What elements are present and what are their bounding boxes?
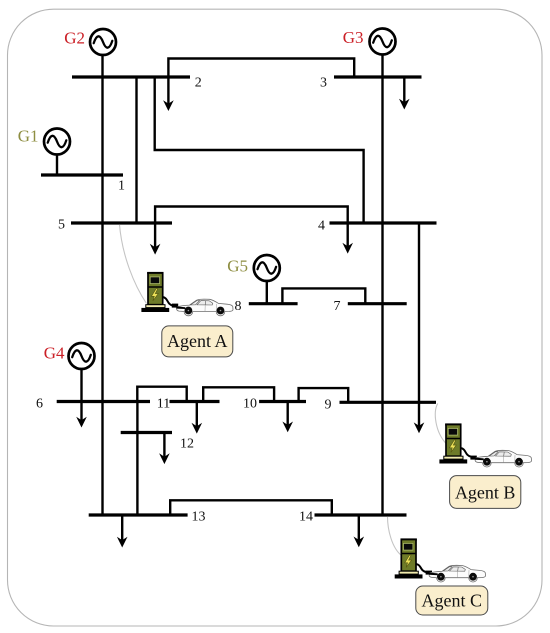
car agent A xyxy=(176,299,233,316)
charging cable agent C xyxy=(416,564,432,575)
bus 10 xyxy=(259,400,306,403)
generator G4 xyxy=(69,343,95,369)
svg-text:2: 2 xyxy=(195,75,202,90)
EV charger agent B xyxy=(439,423,467,463)
wire trunk G2-2-1-5-6-13 xyxy=(101,55,103,515)
svg-text:4: 4 xyxy=(318,219,325,234)
svg-text:12: 12 xyxy=(180,437,194,452)
generator G1 xyxy=(44,129,70,155)
load arrow bus 9 xyxy=(414,402,425,433)
generator G5 xyxy=(254,255,280,281)
bus 3 xyxy=(334,75,422,78)
bus 13 xyxy=(89,513,188,516)
wire G4 lead xyxy=(80,369,82,402)
wire trunk G3-3-4-7-9-14 xyxy=(381,55,383,516)
bus 6 xyxy=(57,400,150,403)
wire 13-14 xyxy=(170,500,332,515)
load arrow bus 11 xyxy=(192,402,203,434)
svg-text:3: 3 xyxy=(320,75,327,90)
load arrow bus 12 xyxy=(159,433,170,465)
generator G2 xyxy=(90,29,116,55)
svg-text:13: 13 xyxy=(192,510,206,525)
svg-text:11: 11 xyxy=(157,397,170,412)
load arrow bus 5 xyxy=(150,223,161,255)
load arrow bus 14 xyxy=(354,515,365,547)
charging cable agent B xyxy=(461,448,477,460)
svg-text:G2: G2 xyxy=(64,29,85,48)
wire 10-9 xyxy=(299,388,349,402)
wire 2-5 xyxy=(135,77,137,223)
drop line bus14 to agent C xyxy=(388,517,402,556)
load arrow bus 13 xyxy=(117,515,128,548)
charging cable agent A xyxy=(163,297,179,308)
svg-text:Agent C: Agent C xyxy=(422,591,483,611)
svg-text:Agent B: Agent B xyxy=(455,483,516,503)
bus 8 xyxy=(249,302,298,305)
bus 12 xyxy=(121,431,172,434)
wire 6-11 xyxy=(137,387,186,402)
wire 11-10 xyxy=(203,387,274,401)
svg-text:9: 9 xyxy=(325,397,332,412)
EV charger agent C xyxy=(395,538,423,578)
car agent C xyxy=(429,565,486,582)
svg-text:G3: G3 xyxy=(343,28,364,47)
load arrow bus 3 xyxy=(399,77,410,110)
agent C label box xyxy=(416,586,488,615)
drop line bus9 to agent B xyxy=(435,404,446,445)
wire G5 lead xyxy=(266,281,268,304)
bus 4 xyxy=(330,221,437,224)
generator G3 xyxy=(370,29,396,55)
svg-text:7: 7 xyxy=(334,299,341,314)
bus 9 xyxy=(340,401,437,404)
wire 6-12-13 xyxy=(136,402,138,516)
agent A label box xyxy=(162,326,233,357)
load arrow bus 10 xyxy=(282,402,293,433)
load arrow bus 6 xyxy=(76,402,87,428)
svg-text:G4: G4 xyxy=(44,344,65,363)
bus 14 xyxy=(315,513,407,516)
load arrow bus 2 xyxy=(163,77,174,111)
bus 11 xyxy=(170,400,220,403)
svg-text:8: 8 xyxy=(235,299,242,314)
svg-text:G5: G5 xyxy=(227,257,248,276)
svg-text:5: 5 xyxy=(58,218,65,233)
wire G1 lead xyxy=(56,155,58,176)
load arrow bus 4 xyxy=(342,223,353,254)
bus 5 xyxy=(71,221,172,224)
EV charger agent A xyxy=(141,272,169,312)
wire 2-4 xyxy=(155,77,364,223)
car agent B xyxy=(475,450,532,467)
wire 4-9 xyxy=(418,223,420,402)
svg-text:6: 6 xyxy=(36,397,43,412)
svg-text:1: 1 xyxy=(118,179,125,194)
wire 7-8 xyxy=(282,288,365,303)
svg-text:14: 14 xyxy=(299,510,313,525)
wire 2-3 xyxy=(168,59,354,78)
bus 7 xyxy=(348,302,407,305)
bus 2 xyxy=(72,75,190,78)
wire 4-5 xyxy=(155,207,348,224)
svg-text:Agent A: Agent A xyxy=(167,331,228,351)
agent B label box xyxy=(450,476,521,509)
svg-text:10: 10 xyxy=(243,397,257,412)
bus 1 xyxy=(41,173,123,176)
drop line bus5 to agent A xyxy=(120,225,147,304)
svg-text:G1: G1 xyxy=(18,127,39,146)
